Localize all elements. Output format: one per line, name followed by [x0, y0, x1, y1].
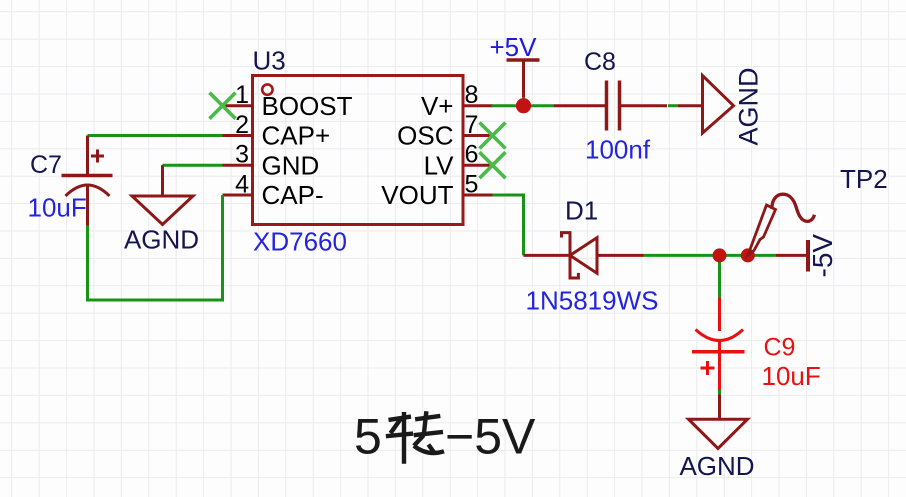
- svg-text:U3: U3: [253, 46, 286, 76]
- wire pin8 to C8: [492, 104, 555, 107]
- wire C8 to AGND port: [668, 104, 678, 107]
- svg-text:C8: C8: [584, 48, 616, 76]
- svg-text:8: 8: [465, 81, 479, 109]
- svg-text:1: 1: [235, 81, 249, 109]
- svg-text:AGND: AGND: [734, 67, 764, 145]
- pin 7 OSC stub: [397, 111, 490, 151]
- svg-text:100nf: 100nf: [585, 135, 651, 165]
- wire pin5 VOUT down to D1: [493, 195, 524, 255]
- no-connect flag pin 6: [480, 152, 506, 178]
- junction dot at +5V node: [516, 98, 531, 113]
- junction dot D1-C9 node: [713, 248, 727, 262]
- svg-text:7: 7: [465, 111, 479, 139]
- svg-text:XD7660: XD7660: [253, 227, 347, 257]
- ground AGND (right port): [678, 76, 734, 134]
- svg-text:V+: V+: [421, 91, 454, 121]
- test point TP2 probe: [748, 194, 815, 255]
- svg-text:OSC: OSC: [397, 121, 453, 151]
- svg-text:CAP-: CAP-: [262, 180, 324, 210]
- +5V power flag: [490, 32, 540, 97]
- wire +5V stem lower segment: [522, 96, 525, 106]
- wire junction down to C9: [718, 255, 721, 297]
- svg-text:C9: C9: [764, 334, 796, 362]
- wire pin3 to AGND: [163, 164, 223, 167]
- svg-text:CAP+: CAP+: [262, 121, 331, 151]
- capacitor C8: [554, 81, 667, 131]
- svg-text:C7: C7: [30, 151, 62, 179]
- pin 5 VOUT stub: [381, 170, 492, 210]
- svg-text:3: 3: [235, 141, 249, 169]
- svg-text:10uF: 10uF: [28, 193, 87, 223]
- IC U3 body: [253, 76, 464, 225]
- diode D1 1N5819WS: [524, 233, 644, 278]
- ground AGND (left): [132, 165, 193, 224]
- svg-text:+5V: +5V: [490, 32, 538, 62]
- svg-text:2: 2: [235, 111, 249, 139]
- svg-text:GND: GND: [262, 150, 320, 180]
- svg-text:AGND: AGND: [124, 225, 199, 255]
- capacitor C9 (red): [692, 298, 745, 391]
- no-connect flag pin 1: [210, 93, 236, 119]
- wire D1 cathode run to -5V: [644, 254, 777, 257]
- svg-text:−5V: −5V: [445, 409, 536, 465]
- svg-text:TP2: TP2: [840, 164, 888, 194]
- svg-text:4: 4: [235, 170, 249, 198]
- ground AGND (bottom): [689, 395, 748, 449]
- svg-text:D1: D1: [565, 196, 598, 226]
- capacitor C7: [62, 136, 113, 226]
- svg-text:5: 5: [354, 409, 382, 465]
- pin 3 GND stub: [223, 141, 320, 181]
- svg-text:10uF: 10uF: [762, 361, 821, 391]
- wire pin2 to C7 top: [88, 134, 223, 137]
- svg-text:LV: LV: [424, 150, 455, 180]
- title text 5转-5V: [354, 409, 536, 465]
- wire C9 bottom to AGND: [718, 390, 721, 395]
- pin 8 V+ stub: [421, 81, 493, 121]
- pin 1 BOOST stub: [223, 81, 353, 121]
- pin 6 LV stub: [424, 141, 490, 181]
- svg-text:5: 5: [465, 170, 479, 198]
- -5V net port: [776, 234, 838, 278]
- svg-text:1N5819WS: 1N5819WS: [526, 286, 659, 316]
- pin 2 CAP+ stub: [223, 111, 331, 151]
- svg-text:6: 6: [465, 141, 479, 169]
- wire pin4 down-left to C7 bottom: [88, 195, 223, 300]
- svg-text:AGND: AGND: [679, 451, 754, 481]
- junction dot TP2 node: [741, 248, 755, 262]
- svg-text:-5V: -5V: [807, 234, 838, 278]
- svg-text:BOOST: BOOST: [262, 91, 353, 121]
- pin 4 CAP- stub: [223, 170, 324, 210]
- svg-text:VOUT: VOUT: [381, 180, 453, 210]
- no-connect flag pin 7: [480, 123, 506, 149]
